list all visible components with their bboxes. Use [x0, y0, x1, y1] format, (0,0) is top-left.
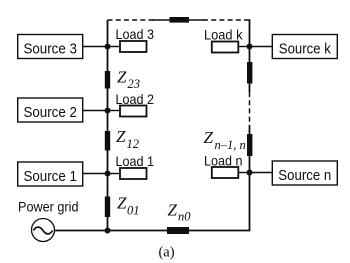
impedance bar Zn0 (bottom horizontal) [167, 227, 189, 234]
impedance bar top (between bus k and bus 3) [170, 17, 190, 23]
node bus0 bottom junction [105, 228, 111, 234]
wire top dashed segment right [203, 19, 250, 21]
AC source (power grid generator) [32, 219, 55, 242]
wire Source n to bus [250, 172, 273, 174]
load Load n [204, 154, 243, 179]
wire top dashed segment left [108, 19, 154, 21]
svg-text:23: 23 [128, 77, 141, 91]
svg-text:Load 1: Load 1 [116, 154, 155, 169]
svg-text:Load 3: Load 3 [116, 27, 155, 42]
svg-text:n0: n0 [178, 210, 191, 224]
svg-text:Source k: Source k [279, 41, 331, 58]
wire right bus dashed middle [249, 92, 251, 126]
load Load 1 [116, 154, 155, 179]
source box Source 2 [18, 98, 83, 122]
node bus1/source1 junction [105, 171, 111, 177]
impedance bar Zn-1,n [247, 134, 252, 156]
source box Source k [272, 35, 337, 59]
wire right bus lower solid [249, 126, 251, 231]
svg-text:Z: Z [117, 68, 127, 87]
wire left bus vertical [107, 20, 109, 231]
load Load 2 [116, 92, 155, 117]
impedance bar Z12 [105, 131, 110, 151]
wire top solid segment left [152, 19, 170, 21]
label Z12 [116, 127, 139, 151]
wire Load 2 to bus [108, 110, 121, 112]
svg-text:Z: Z [117, 194, 127, 213]
source box Source n [272, 161, 337, 185]
svg-text:n–1, n: n–1, n [215, 138, 246, 152]
node bus k/source k junction [247, 44, 253, 50]
wire Source 1 to bus [83, 173, 108, 175]
label Zn0 [168, 201, 192, 224]
svg-text:Power grid: Power grid [18, 199, 79, 215]
svg-text:Source 1: Source 1 [23, 168, 77, 185]
load Load 3 [116, 27, 155, 52]
label Zn-1,n [204, 128, 246, 152]
source box Source 1 [18, 162, 83, 186]
wire Source 2 to bus [83, 110, 108, 112]
svg-text:01: 01 [127, 204, 140, 218]
svg-text:Z: Z [116, 127, 126, 146]
svg-text:Load k: Load k [204, 28, 243, 43]
label Z23 [117, 68, 140, 92]
node bus n/source n junction [247, 170, 253, 176]
wire Load k to bus [238, 46, 249, 48]
wire Load 1 to bus [108, 173, 121, 175]
wire Source k to bus [250, 46, 273, 48]
impedance bar Z01 [105, 197, 110, 218]
wire top solid segment right [189, 19, 204, 21]
wire right bus upper solid [249, 19, 251, 92]
svg-text:12: 12 [127, 137, 140, 151]
wire Source 3 to bus [83, 46, 108, 48]
wire bottom horizontal [55, 230, 251, 232]
svg-text:Source 2: Source 2 [23, 104, 77, 121]
svg-text:Z: Z [204, 128, 214, 147]
source box Source 3 [18, 35, 83, 59]
load Load k [204, 28, 243, 53]
svg-text:Source 3: Source 3 [23, 41, 77, 58]
impedance bar on bus k (upper right) [247, 62, 252, 84]
wire Load n to bus [238, 172, 249, 174]
svg-text:Z: Z [168, 201, 178, 220]
svg-text:Source n: Source n [278, 167, 331, 184]
wire Load 3 to bus [108, 46, 121, 48]
impedance bar Z23 [105, 71, 110, 89]
node bus2/source2 junction [105, 108, 111, 114]
node bus3/source3 junction [105, 44, 111, 50]
svg-text:(a): (a) [158, 245, 174, 261]
label Z01 [117, 194, 140, 218]
